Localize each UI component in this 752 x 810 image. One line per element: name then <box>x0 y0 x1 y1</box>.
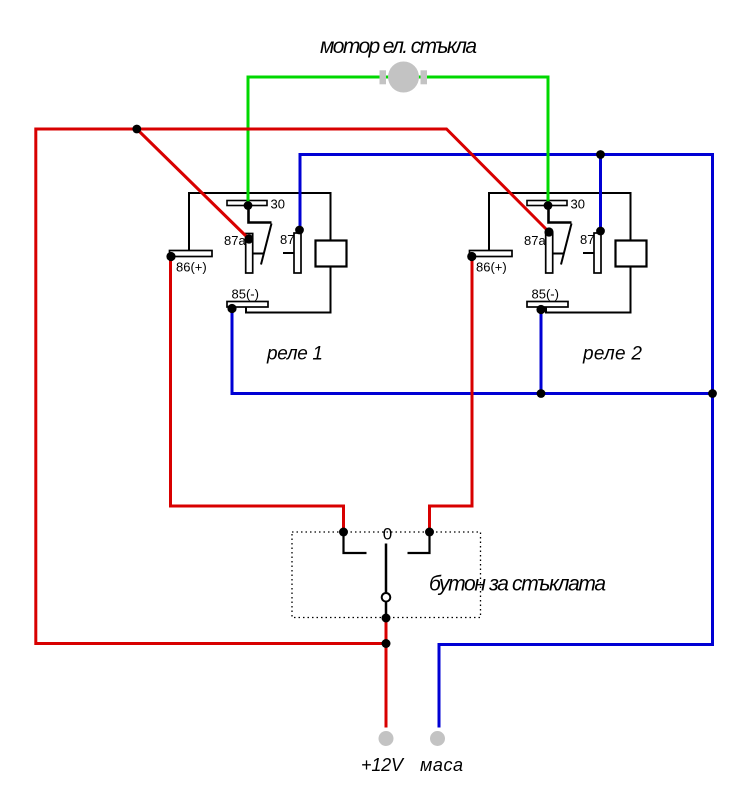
svg-text:мотор ел. стъкла: мотор ел. стъкла <box>320 35 477 58</box>
svg-text:0: 0 <box>383 525 392 544</box>
svg-text:бутон за стъклата: бутон за стъклата <box>429 573 606 596</box>
svg-text:+12V: +12V <box>361 755 405 775</box>
svg-text:реле 1: реле 1 <box>266 344 323 365</box>
svg-text:маса: маса <box>420 755 463 775</box>
svg-text:реле 2: реле 2 <box>582 344 642 365</box>
